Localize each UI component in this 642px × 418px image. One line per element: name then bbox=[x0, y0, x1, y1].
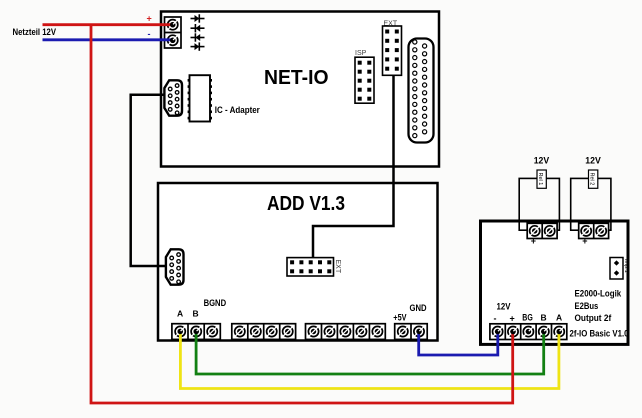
screws ADD group 3 bbox=[308, 326, 382, 336]
NET-IO board outline bbox=[161, 12, 439, 167]
svg-text:12V: 12V bbox=[497, 302, 511, 312]
svg-text:Imp.1: Imp.1 bbox=[623, 259, 629, 273]
svg-text:Netzteil 12V: Netzteil 12V bbox=[13, 27, 57, 37]
svg-text:-: - bbox=[494, 314, 497, 324]
ISP header bbox=[355, 50, 374, 103]
svg-text:EXT: EXT bbox=[334, 260, 341, 274]
svg-text:B: B bbox=[193, 309, 199, 319]
2f-IO Basic board outline bbox=[481, 221, 629, 344]
NET-IO title bbox=[264, 67, 329, 89]
wire blue from Netzteil to NET-IO minus terminal bbox=[43, 38, 173, 41]
screws ADD group 4 bbox=[398, 326, 424, 336]
plus marker bbox=[147, 14, 152, 24]
relay 2 12V label bbox=[585, 155, 601, 165]
screws ADD group 2 bbox=[235, 326, 293, 336]
svg-text:A: A bbox=[177, 309, 183, 319]
svg-text:+: + bbox=[582, 236, 587, 246]
svg-text:BGND: BGND bbox=[204, 298, 227, 308]
screws 2f-IO block bbox=[493, 327, 565, 337]
wire blue ADD GND to 2f-IO minus bbox=[419, 332, 498, 356]
DB9 connector on ADD bbox=[166, 249, 184, 284]
wire red from Netzteil to NET-IO plus terminal bbox=[43, 23, 173, 26]
minus marker bbox=[148, 29, 151, 39]
relay 2 plus mark bbox=[582, 236, 587, 246]
svg-text:+: + bbox=[531, 236, 536, 246]
screws ADD group 1 bbox=[175, 326, 217, 336]
wire red left side down and to 2f-IO plus bbox=[91, 25, 513, 403]
svg-text:A: A bbox=[556, 313, 562, 323]
label Netzteil 12V bbox=[13, 27, 57, 37]
relay 2 frame bbox=[571, 178, 611, 230]
relay 1 body Rel 1 bbox=[537, 170, 546, 188]
2f-IO terminal block bbox=[490, 324, 567, 340]
svg-text:E2Bus: E2Bus bbox=[575, 301, 599, 311]
svg-text:2f-IO Basic V1.0: 2f-IO Basic V1.0 bbox=[570, 329, 629, 339]
power terminal block X1 bbox=[165, 17, 182, 48]
ADD V1.3 title bbox=[267, 193, 345, 215]
ADD terminal block group 4 (+5V GND) bbox=[395, 324, 428, 340]
ADD terminal block group 2 bbox=[232, 324, 296, 340]
screw NET-IO minus bbox=[168, 35, 178, 45]
relay 1 plus mark bbox=[531, 236, 536, 246]
ADD V1.3 board outline bbox=[158, 183, 438, 341]
diode D1 bbox=[191, 14, 205, 22]
EXT header on NET-IO bbox=[383, 21, 402, 76]
diode D3 bbox=[191, 33, 205, 41]
relay 2 body Rel 2 bbox=[589, 170, 598, 188]
DB25 connector bbox=[409, 39, 434, 143]
svg-text:IC - Adapter: IC - Adapter bbox=[215, 105, 260, 115]
svg-text:Rel 1: Rel 1 bbox=[537, 173, 543, 186]
DB9 connector on NET-IO bbox=[164, 80, 182, 115]
svg-text:12V: 12V bbox=[534, 155, 550, 165]
wire black DB9 NET-IO to DB9 ADD bbox=[131, 95, 170, 266]
screws relay 2 bbox=[581, 226, 606, 236]
diode D4 bbox=[191, 42, 205, 50]
ADD terminal block group 3 bbox=[306, 324, 386, 340]
svg-text:-: - bbox=[148, 29, 151, 39]
svg-text:E2000-Logik: E2000-Logik bbox=[575, 289, 623, 299]
screw NET-IO plus bbox=[168, 20, 178, 30]
screws relay 1 bbox=[530, 226, 555, 236]
svg-text:ISP: ISP bbox=[355, 50, 367, 57]
label IC - Adapter bbox=[215, 105, 260, 115]
relay 1 frame bbox=[519, 178, 559, 230]
relay 1 12V label bbox=[534, 155, 550, 165]
ADD terminal block group 1 (A B BGND) bbox=[172, 324, 220, 340]
svg-text:ADD V1.3: ADD V1.3 bbox=[267, 193, 345, 215]
svg-text:+5V: +5V bbox=[393, 313, 406, 323]
svg-text:GND: GND bbox=[410, 303, 427, 313]
svg-text:BG: BG bbox=[522, 312, 533, 322]
wire green ADD B to 2f-IO B bbox=[196, 332, 544, 375]
IC adapter socket bbox=[188, 75, 212, 121]
wire end dots over terminals bbox=[170, 22, 562, 334]
ADD terminal labels bbox=[177, 298, 427, 323]
relay 1 terminal block bbox=[527, 223, 557, 238]
svg-text:Rel 2: Rel 2 bbox=[589, 173, 595, 186]
EXT header on ADD bbox=[287, 258, 341, 276]
diode D2 bbox=[191, 24, 205, 32]
svg-text:NET-IO: NET-IO bbox=[264, 67, 329, 89]
wire yellow ADD A to 2f-IO A bbox=[180, 332, 559, 389]
Imp connector bbox=[610, 258, 629, 280]
svg-text:B: B bbox=[541, 313, 547, 323]
svg-text:12V: 12V bbox=[585, 155, 601, 165]
svg-text:+: + bbox=[147, 14, 152, 24]
relay 2 terminal block bbox=[579, 223, 609, 238]
2f-IO board text block bbox=[570, 289, 629, 339]
wire black EXT NET-IO to EXT ADD bbox=[313, 75, 394, 257]
svg-text:+: + bbox=[510, 314, 515, 324]
2f-IO terminal labels bbox=[494, 302, 563, 324]
svg-text:Output 2f: Output 2f bbox=[575, 313, 613, 323]
